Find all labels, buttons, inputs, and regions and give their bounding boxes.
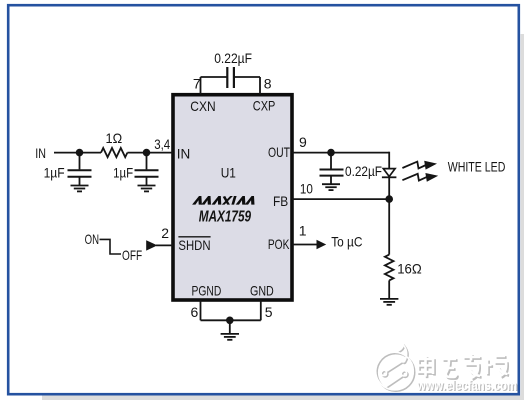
grey page strip bottom	[42, 396, 524, 400]
wire pin7 to capacitor	[201, 76, 228, 78]
svg-text:0.22µF: 0.22µF	[214, 50, 252, 66]
svg-text:www.elecfans.com: www.elecfans.com	[416, 378, 517, 393]
svg-text:ON: ON	[85, 231, 99, 247]
pin 8 stub wire	[259, 77, 261, 94]
wire capacitor to pin8	[234, 76, 260, 78]
svg-text:9: 9	[299, 134, 307, 150]
LED emission arrow lower	[402, 173, 438, 182]
LED cathode bar	[382, 176, 397, 178]
junction output cap	[327, 149, 335, 157]
wire arrow to SHDN pin 2	[156, 244, 173, 246]
ground (output cap)	[322, 184, 340, 190]
wire joining pin6 and pin5	[201, 319, 261, 321]
resistor R2 16ohm zigzag	[385, 255, 394, 281]
op-amp U1 MAX1759 IC body	[173, 95, 292, 300]
svg-text:SHDN: SHDN	[178, 237, 210, 253]
svg-text:1Ω: 1Ω	[106, 130, 123, 146]
svg-text:IN: IN	[35, 145, 46, 161]
svg-text:1µF: 1µF	[44, 165, 65, 181]
wire FB pin 10	[292, 198, 389, 200]
resistor R 1ohm	[101, 148, 127, 157]
ground (16ohm)	[380, 299, 398, 305]
svg-text:1: 1	[299, 223, 307, 239]
wire corner down to LED	[388, 152, 390, 169]
wire resistor to IC pin 3,4	[127, 152, 173, 154]
ground (right input cap)	[138, 186, 156, 192]
svg-text:0.22µF: 0.22µF	[345, 163, 382, 179]
wire OUT pin 9	[292, 152, 389, 154]
ground (IC)	[221, 334, 239, 340]
svg-text:MAX1759: MAX1759	[199, 209, 251, 226]
capacitor C3 0.22uF (output)	[320, 153, 344, 184]
wire PGND pin 6 stub	[200, 300, 202, 320]
svg-text:U1: U1	[221, 165, 236, 181]
svg-text:POK: POK	[268, 236, 290, 252]
arrowhead To uC	[317, 240, 327, 249]
LED D1 (white LED) triangle	[383, 169, 395, 177]
pin 7 stub wire	[200, 77, 202, 94]
arrowhead into SHDN	[146, 240, 157, 250]
capacitor C (0.22uF flying) plates	[227, 67, 234, 88]
capacitor C1 1uF (left)	[68, 153, 92, 185]
svg-text:3,4: 3,4	[154, 136, 170, 152]
grey page strip right	[521, 34, 524, 400]
svg-text:CXP: CXP	[253, 98, 275, 114]
LED emission arrow upper	[402, 161, 437, 170]
svg-text:WHITE LED: WHITE LED	[448, 159, 506, 175]
svg-text:IN: IN	[177, 146, 191, 162]
svg-text:GND: GND	[250, 282, 274, 298]
svg-text:2: 2	[161, 225, 169, 241]
junction FB node	[385, 195, 393, 203]
svg-text:FB: FB	[273, 193, 288, 209]
svg-text:5: 5	[265, 304, 273, 320]
capacitor C2 1uF (right of R)	[135, 153, 159, 185]
SHDN overline	[178, 236, 210, 238]
wire junction to ground	[229, 320, 231, 333]
junction input cap 1	[76, 149, 84, 157]
svg-text:16Ω: 16Ω	[397, 261, 422, 277]
svg-text:OFF: OFF	[122, 247, 142, 263]
svg-text:OUT: OUT	[268, 144, 290, 160]
svg-text:CXN: CXN	[190, 98, 215, 114]
wire IN to resistor	[54, 152, 101, 154]
svg-text:7: 7	[193, 76, 201, 92]
svg-text:PGND: PGND	[192, 282, 222, 298]
MAXIM logo	[192, 196, 256, 205]
svg-text:8: 8	[264, 76, 272, 92]
wire POK pin 1	[292, 244, 318, 246]
ground (left cap)	[71, 186, 89, 192]
wire ON/OFF step	[100, 239, 122, 254]
junction ground node	[226, 317, 234, 325]
wire LED to FB junction	[388, 177, 390, 255]
svg-text:1µF: 1µF	[113, 165, 133, 181]
svg-text:10: 10	[300, 181, 313, 197]
wire GND pin 5 stub	[260, 300, 262, 320]
wire resistor to ground	[388, 280, 390, 298]
svg-text:To µC: To µC	[331, 234, 362, 250]
junction input cap 2	[143, 149, 151, 157]
svg-text:6: 6	[191, 304, 199, 320]
